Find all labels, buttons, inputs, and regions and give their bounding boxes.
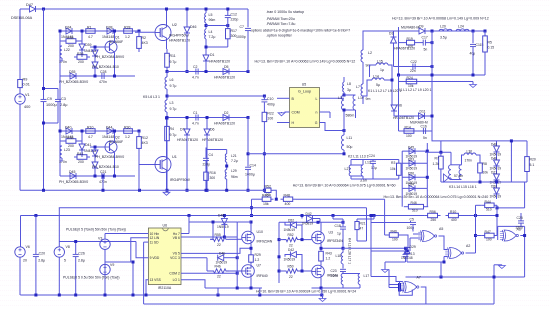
svg-text:L3: L3: [170, 101, 174, 105]
svg-text:1N5019: 1N5019: [406, 192, 418, 196]
svg-text:U10: U10: [257, 230, 263, 234]
svg-text:3μ: 3μ: [347, 88, 351, 92]
svg-text:1N5819: 1N5819: [302, 222, 314, 226]
svg-text:1.2: 1.2: [326, 257, 331, 261]
svg-text:R36: R36: [77, 52, 83, 56]
svg-text:1N5019: 1N5019: [284, 258, 296, 262]
svg-text:R52: R52: [265, 185, 271, 189]
svg-text:D35: D35: [69, 70, 75, 74]
svg-text:100n: 100n: [331, 274, 339, 278]
svg-text:510: 510: [486, 208, 492, 212]
svg-text:D7: D7: [180, 128, 185, 132]
svg-text:R10: R10: [450, 210, 456, 214]
svg-text:D40: D40: [65, 126, 71, 130]
svg-text:.options abstol=1e-9 chgtol=1e: .options abstol=1e-9 chgtol=1e-6 maxstep…: [250, 28, 350, 32]
svg-text:D3: D3: [389, 32, 393, 36]
svg-text:U7: U7: [257, 264, 262, 268]
svg-text:PH_BZX065-B3V0: PH_BZX065-B3V0: [59, 180, 88, 184]
svg-text:R1: R1: [87, 26, 92, 30]
svg-text:22: 22: [289, 275, 293, 279]
svg-text:5.1: 5.1: [530, 163, 535, 167]
svg-text:IRF9Z34N: IRF9Z34N: [327, 239, 343, 243]
svg-text:C23: C23: [331, 269, 337, 273]
svg-text:L4: L4: [209, 30, 213, 34]
svg-text:PH_BZX064-B10: PH_BZX064-B10: [92, 165, 119, 169]
svg-text:K5 L6 L3 1: K5 L6 L3 1: [143, 95, 160, 99]
svg-text:D45: D45: [408, 145, 414, 149]
svg-text:3.5μ: 3.5μ: [440, 36, 447, 40]
svg-text:1.2k: 1.2k: [433, 162, 440, 166]
svg-text:D5: D5: [224, 65, 229, 69]
svg-text:L22: L22: [64, 48, 70, 52]
svg-text:22: 22: [289, 244, 293, 248]
svg-text:PH_BZX084-B9V0: PH_BZX084-B9V0: [95, 55, 124, 59]
svg-text:0.15: 0.15: [488, 46, 495, 50]
svg-text:R50: R50: [288, 265, 294, 269]
svg-text:15k: 15k: [263, 202, 269, 206]
svg-text:9.7μ: 9.7μ: [170, 133, 177, 137]
svg-text:D2: D2: [224, 111, 229, 115]
svg-text:Hc=10. Bm=39 Br=.10 A=0.000024: Hc=10. Bm=39 Br=.10 A=0.000024 Lm=0.050 …: [256, 290, 356, 294]
svg-text:L18: L18: [336, 254, 342, 258]
svg-text:1N5019: 1N5019: [406, 167, 418, 171]
svg-text:1000μ: 1000μ: [245, 173, 255, 177]
svg-text:D1: D1: [210, 53, 215, 57]
svg-text:BCW66F: BCW66F: [109, 40, 123, 44]
svg-text:1N4148: 1N4148: [102, 135, 114, 139]
svg-text:A7: A7: [417, 276, 421, 280]
svg-text:47: 47: [360, 227, 364, 231]
svg-text:R4b: R4b: [215, 265, 221, 269]
svg-text:D52: D52: [288, 219, 294, 223]
svg-text:470n: 470n: [99, 80, 107, 84]
svg-text:C2: C2: [193, 65, 198, 69]
svg-text:400p: 400p: [267, 103, 275, 107]
svg-text:PH_BZX065-B3V0: PH_BZX065-B3V0: [59, 80, 88, 84]
svg-text:C16: C16: [421, 125, 427, 129]
svg-text:R14: R14: [405, 126, 411, 130]
svg-text:C9: C9: [47, 97, 52, 101]
svg-text:HFA06TB120: HFA06TB120: [394, 47, 415, 51]
svg-text:R35: R35: [67, 36, 73, 40]
svg-text:U1: U1: [172, 155, 177, 159]
svg-text:C21: C21: [100, 170, 106, 174]
svg-text:R5: R5: [488, 41, 492, 45]
svg-text:Hc=13. Bm=39 Br=.10 A=0.00063: Hc=13. Bm=39 Br=.10 A=0.00063 Lm=0.149 L…: [255, 60, 356, 64]
svg-text:D4b: D4b: [491, 157, 497, 161]
svg-text:PULSE(0 5 {Tcw0} 50n 50n {Ton}: PULSE(0 5 {Tcw0} 50n 50n {Ton} {Tsw}): [66, 228, 126, 232]
svg-text:DSEI60-06A: DSEI60-06A: [11, 16, 33, 20]
svg-text:L17: L17: [364, 274, 370, 278]
svg-text:R55: R55: [215, 233, 221, 237]
svg-text:D46: D46: [190, 25, 196, 29]
svg-text:1N5019: 1N5019: [217, 225, 229, 229]
svg-text:200: 200: [78, 160, 84, 164]
svg-text:COM: COM: [292, 111, 300, 115]
svg-text:K1 L1 L2 L7 L9 L20 1: K1 L1 L2 L7 L9 L20 1: [368, 89, 402, 93]
svg-text:Hc=13. Bm=39 Br=.10 A=0.00068: Hc=13. Bm=39 Br=.10 A=0.00068 Lm=0.149 L…: [392, 17, 489, 21]
svg-text:LO 1: LO 1: [173, 278, 180, 282]
svg-text:.option nooptiter: .option nooptiter: [266, 34, 293, 38]
svg-text:R3: R3: [391, 161, 395, 165]
svg-text:L23: L23: [64, 148, 70, 152]
svg-text:C1: C1: [193, 111, 198, 115]
svg-text:5: 5: [64, 259, 66, 263]
svg-text:9m: 9m: [366, 97, 371, 101]
svg-text:IRG4PF50W: IRG4PF50W: [169, 34, 190, 38]
svg-text:COM 2: COM 2: [169, 272, 180, 276]
svg-text:C22: C22: [411, 60, 417, 64]
svg-text:C10: C10: [267, 97, 273, 101]
svg-text:10k: 10k: [483, 171, 489, 175]
svg-text:R47: R47: [485, 230, 491, 234]
svg-text:R43: R43: [326, 252, 332, 256]
svg-text:C24: C24: [369, 154, 375, 158]
svg-text:C12: C12: [231, 13, 237, 17]
svg-text:K2 L11 L13 1: K2 L11 L13 1: [348, 155, 369, 159]
svg-text:L15: L15: [377, 60, 383, 64]
svg-text:L14: L14: [373, 75, 379, 79]
svg-text:U3: U3: [329, 231, 334, 235]
svg-text:1000p: 1000p: [236, 35, 246, 39]
svg-text:IR2110A: IR2110A: [158, 286, 172, 290]
svg-text:IRF9Z34N: IRF9Z34N: [257, 240, 273, 244]
svg-text:1.2: 1.2: [125, 135, 130, 139]
svg-text:R22: R22: [267, 112, 273, 116]
svg-text:V8: V8: [66, 245, 70, 249]
svg-text:1N4148: 1N4148: [102, 35, 114, 39]
svg-text:100: 100: [486, 238, 492, 242]
svg-text:R20: R20: [530, 158, 536, 162]
svg-text:220p: 220p: [231, 18, 239, 22]
svg-text:R52: R52: [288, 233, 294, 237]
svg-text:22: 22: [217, 275, 221, 279]
svg-text:R44: R44: [485, 200, 491, 204]
svg-text:A6: A6: [517, 228, 521, 232]
svg-text:5μ: 5μ: [376, 83, 380, 87]
svg-text:D45: D45: [69, 170, 75, 174]
svg-text:D39: D39: [85, 43, 91, 47]
svg-text:R30: R30: [124, 126, 130, 130]
svg-text:D54: D54: [408, 183, 414, 187]
svg-text:HFA06TB120: HFA06TB120: [177, 138, 198, 142]
svg-text:HFA06TB120: HFA06TB120: [202, 138, 223, 142]
svg-text:D56: D56: [408, 172, 414, 176]
svg-text:PH_BZX084-B9V0: PH_BZX084-B9V0: [95, 155, 124, 159]
svg-text:22: 22: [217, 243, 221, 247]
svg-text:100: 100: [267, 117, 273, 121]
svg-text:C5: C5: [410, 218, 414, 222]
svg-text:20: 20: [23, 259, 27, 263]
svg-text:100: 100: [406, 134, 412, 138]
svg-text:R41: R41: [77, 152, 83, 156]
svg-text:40μ: 40μ: [470, 52, 476, 56]
svg-text:170n: 170n: [465, 159, 473, 163]
svg-text:HFA06TB120: HFA06TB120: [214, 76, 235, 80]
svg-text:R7: R7: [435, 157, 439, 161]
svg-text:1μ: 1μ: [380, 68, 384, 72]
svg-text:4.7n: 4.7n: [192, 76, 199, 80]
svg-text:HFA06TB120: HFA06TB120: [209, 60, 230, 64]
svg-text:K1 L1 L2 L7 L9 L20 1: K1 L1 L2 L7 L9 L20 1: [398, 88, 432, 92]
svg-text:D34: D34: [65, 26, 71, 30]
svg-text:R21: R21: [360, 222, 366, 226]
svg-text:Q2: Q2: [115, 136, 120, 140]
svg-text:4K3: 4K3: [142, 41, 148, 45]
svg-text:C14: C14: [250, 164, 256, 168]
svg-text:V6: V6: [26, 245, 30, 249]
svg-text:V3: V3: [98, 237, 102, 241]
svg-text:L6: L6: [170, 78, 174, 82]
svg-text:1.2: 1.2: [255, 258, 260, 262]
svg-text:R16: R16: [210, 171, 216, 175]
svg-text:96m: 96m: [209, 18, 216, 22]
svg-text:R9: R9: [23, 78, 28, 82]
svg-text:9 VDD: 9 VDD: [150, 256, 160, 260]
svg-text:R17: R17: [231, 29, 237, 33]
svg-text:R8: R8: [483, 162, 487, 166]
svg-text:5n: 5n: [424, 48, 428, 52]
svg-text:D53: D53: [408, 157, 414, 161]
svg-text:K3 L14 L15 L16 1: K3 L14 L15 L16 1: [449, 185, 477, 189]
svg-text:L30: L30: [467, 150, 473, 154]
svg-text:D9: D9: [419, 25, 424, 29]
svg-text:D49: D49: [218, 214, 224, 218]
svg-text:R12: R12: [142, 136, 148, 140]
svg-text:VB 6: VB 6: [173, 236, 180, 240]
svg-text:13 VSS: 13 VSS: [150, 278, 162, 282]
svg-text:R45: R45: [262, 194, 268, 198]
svg-text:200: 200: [78, 60, 84, 64]
svg-text:C7: C7: [240, 25, 245, 29]
svg-text:Q1: Q1: [115, 36, 120, 40]
svg-text:HFA06TB120: HFA06TB120: [393, 116, 414, 120]
svg-text:R48: R48: [284, 194, 290, 198]
svg-text:.tran 0 1000u 0u startup: .tran 0 1000u 0u startup: [266, 10, 304, 14]
svg-text:R2: R2: [142, 36, 147, 40]
svg-text:100: 100: [392, 238, 398, 242]
svg-text:R11: R11: [170, 54, 176, 58]
svg-text:L7: L7: [356, 85, 360, 89]
svg-text:L11: L11: [347, 136, 353, 140]
svg-text:A5: A5: [439, 227, 443, 231]
svg-text:4K3: 4K3: [142, 141, 148, 145]
svg-text:PH_BZX064-B10: PH_BZX064-B10: [92, 65, 119, 69]
svg-text:D41: D41: [85, 143, 91, 147]
svg-text:U2: U2: [172, 23, 177, 27]
svg-text:R10: R10: [87, 126, 93, 130]
svg-text:5n: 5n: [423, 136, 427, 140]
svg-text:D48: D48: [491, 143, 497, 147]
svg-text:4.7: 4.7: [88, 135, 93, 139]
svg-text:D50: D50: [491, 185, 497, 189]
svg-text:D38: D38: [106, 26, 112, 30]
svg-text:.PARAM Tcw=20u: .PARAM Tcw=20u: [266, 17, 295, 21]
svg-text:R56: R56: [430, 210, 436, 214]
svg-text:C26: C26: [78, 252, 84, 256]
svg-text:MURA80-M: MURA80-M: [401, 26, 419, 30]
svg-text:96m: 96m: [231, 175, 238, 179]
svg-text:9.7μ: 9.7μ: [170, 84, 177, 88]
svg-text:R28: R28: [124, 26, 130, 30]
svg-text:250: 250: [431, 218, 437, 222]
svg-text:0.01: 0.01: [23, 83, 30, 87]
svg-text:L: L: [316, 97, 318, 101]
svg-text:D29: D29: [410, 245, 416, 249]
svg-text:G: G: [315, 121, 318, 125]
svg-text:D4b: D4b: [219, 252, 225, 256]
svg-text:1μ: 1μ: [337, 232, 341, 236]
svg-text:22n: 22n: [410, 69, 416, 73]
svg-text:2.8μ: 2.8μ: [60, 103, 67, 107]
svg-text:400: 400: [285, 202, 291, 206]
svg-text:10μ: 10μ: [371, 166, 377, 170]
svg-text:VCC 3: VCC 3: [170, 256, 180, 260]
svg-text:D21: D21: [491, 171, 497, 175]
svg-text:G_Loop: G_Loop: [298, 90, 311, 94]
svg-text:L20: L20: [440, 25, 446, 29]
svg-text:K4 L18 L28 L17 1: K4 L18 L28 L17 1: [348, 238, 352, 264]
svg-text:L5: L5: [209, 13, 213, 17]
svg-text:50μ: 50μ: [347, 145, 353, 149]
svg-text:10k: 10k: [390, 167, 396, 171]
svg-text:L1: L1: [338, 96, 342, 100]
svg-text:Hc=13. Bm=39 Br=.10 A=0.00006: Hc=13. Bm=39 Br=.10 A=0.000064 Lm=0.075 …: [293, 184, 396, 188]
svg-text:BCW66F: BCW66F: [109, 140, 123, 144]
svg-text:R4: R4: [170, 127, 175, 131]
svg-text:V1: V1: [25, 93, 30, 97]
svg-text:R24: R24: [407, 76, 413, 80]
svg-text:580m: 580m: [346, 114, 355, 118]
svg-text:510: 510: [412, 209, 418, 213]
svg-text:R19: R19: [407, 37, 413, 41]
svg-text:PULSE(0 5 0.5u 50n 50n {Ton} {: PULSE(0 5 0.5u 50n 50n {Ton} {Tsw}): [63, 276, 120, 280]
svg-text:U6: U6: [163, 224, 168, 228]
svg-text:9.7μ: 9.7μ: [170, 60, 177, 64]
svg-text:R29: R29: [255, 253, 261, 257]
svg-text:57.6m: 57.6m: [454, 174, 463, 178]
svg-text:4.7: 4.7: [88, 35, 93, 39]
svg-text:1N5019: 1N5019: [284, 228, 296, 232]
svg-text:C4: C4: [209, 153, 213, 157]
svg-text:n: n: [316, 111, 318, 115]
svg-text:1000μ: 1000μ: [46, 103, 57, 107]
svg-text:7.2μ: 7.2μ: [231, 159, 238, 163]
svg-text:D42: D42: [306, 212, 312, 216]
svg-text:C17: C17: [422, 36, 428, 40]
svg-text:L8: L8: [347, 82, 351, 86]
svg-text:Hc=13. Bm=39 Br=.10 A=0.00006: Hc=13. Bm=39 Br=.10 A=0.000064 Lm=0.075 …: [384, 195, 489, 199]
svg-text:400: 400: [24, 105, 30, 109]
svg-text:C28: C28: [100, 70, 106, 74]
svg-text:4.7n: 4.7n: [192, 122, 199, 126]
svg-text:L2: L2: [368, 51, 372, 55]
svg-text:R46: R46: [411, 201, 417, 205]
svg-text:L21: L21: [231, 154, 237, 158]
svg-text:D42: D42: [288, 248, 294, 252]
svg-text:400: 400: [451, 218, 457, 222]
svg-text:C25: C25: [517, 216, 523, 220]
svg-text:C3: C3: [61, 97, 66, 101]
svg-text:L27: L27: [345, 167, 351, 171]
svg-text:1N5019: 1N5019: [490, 195, 502, 199]
svg-text:2.8μ: 2.8μ: [38, 259, 45, 263]
svg-text:V9: V9: [110, 263, 114, 267]
svg-text:R40: R40: [391, 230, 397, 234]
svg-text:IRF640: IRF640: [257, 274, 268, 278]
svg-text:D44: D44: [106, 126, 112, 130]
svg-text:2.8μ: 2.8μ: [78, 259, 85, 263]
svg-text:L29: L29: [231, 169, 237, 173]
svg-text:HFA06TB120: HFA06TB120: [214, 122, 235, 126]
svg-text:A2: A2: [466, 244, 470, 248]
svg-text:D6: D6: [210, 128, 215, 132]
svg-text:L24: L24: [458, 25, 464, 29]
svg-text:D47: D47: [26, 3, 33, 7]
svg-text:C18: C18: [335, 224, 341, 228]
svg-text:R38: R38: [67, 136, 73, 140]
svg-text:9.7μ: 9.7μ: [170, 107, 177, 111]
svg-text:7.2μ: 7.2μ: [209, 35, 216, 39]
svg-text:C20: C20: [39, 252, 45, 256]
svg-text:D11: D11: [420, 110, 426, 114]
svg-text:U5: U5: [302, 83, 307, 87]
svg-text:11 SD: 11 SD: [150, 240, 160, 244]
svg-text:1.2: 1.2: [125, 35, 130, 39]
svg-text:.PARAM Ton=7.8u: .PARAM Ton=7.8u: [266, 22, 295, 26]
svg-text:300: 300: [210, 176, 216, 180]
